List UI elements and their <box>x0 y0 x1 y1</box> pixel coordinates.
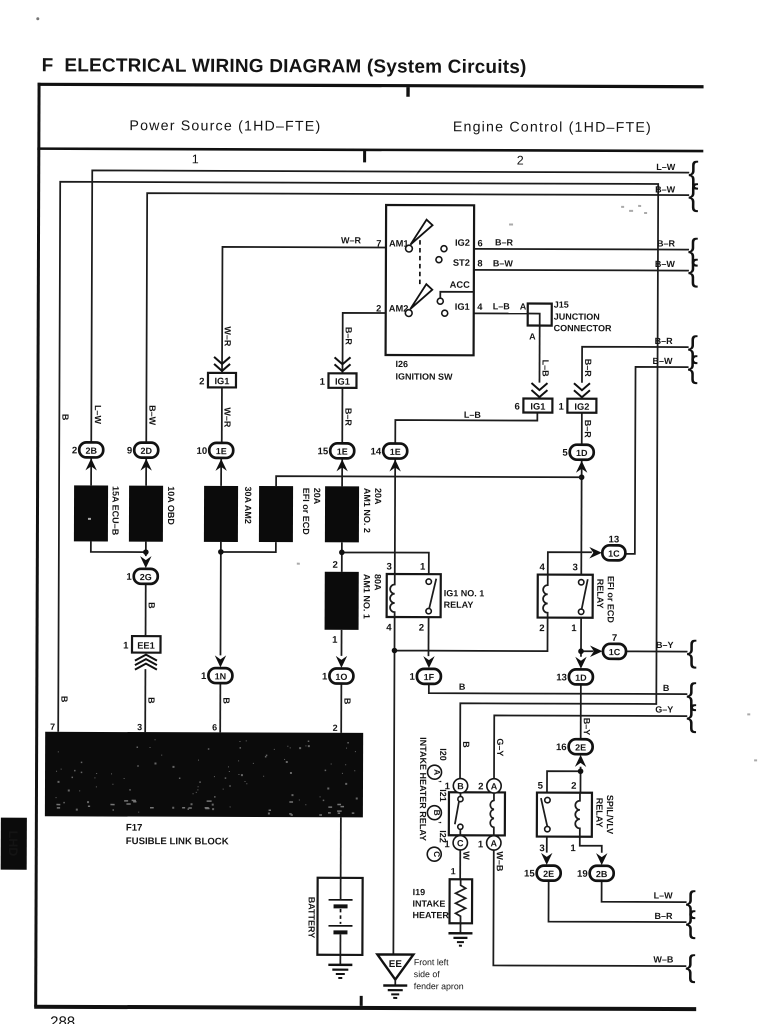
wire SPIL relay pin 3 to 15 2E <box>546 837 548 853</box>
chevron into 1 IG2 <box>574 383 590 397</box>
svg-text:B–Y: B–Y <box>582 718 592 736</box>
svg-text:20A: 20A <box>312 488 322 505</box>
svg-text:IG1: IG1 <box>214 376 229 386</box>
svg-text:LHD: LHD <box>6 831 20 857</box>
svg-text:{: { <box>686 699 696 734</box>
svg-text:Front left: Front left <box>414 957 449 967</box>
svg-text:B: B <box>432 810 442 816</box>
svg-text:C: C <box>432 851 442 857</box>
wire B (2G to EE1) <box>146 584 157 637</box>
svg-text:fender apron: fender apron <box>414 981 464 991</box>
svg-text:EFI or ECD: EFI or ECD <box>606 576 616 624</box>
svg-text:B–W: B–W <box>493 258 514 268</box>
svg-text:A: A <box>491 838 498 848</box>
chevrons below EE1 <box>135 655 157 670</box>
EE ground <box>383 980 407 998</box>
wire IG1 relay pin 4 junction to EFI relay pin 2, and down to EE ground <box>391 617 548 955</box>
relay EFI or ECD coil <box>543 575 548 618</box>
svg-text:ACC: ACC <box>450 280 470 290</box>
svg-text:I20: I20 <box>438 748 448 761</box>
relay IG1 NO.1 switch <box>426 579 436 614</box>
svg-text:I19: I19 <box>413 887 426 897</box>
connector 7 1C <box>590 633 626 659</box>
wire L-B (IG1 row to J15) <box>448 301 528 313</box>
fuse 80A AM1 NO.1 <box>325 560 383 646</box>
terminal box 1 IG2 <box>559 399 597 413</box>
svg-text:2: 2 <box>332 560 337 571</box>
svg-text:2B: 2B <box>596 869 608 879</box>
svg-text:{: { <box>688 178 698 213</box>
svg-text:F ELECTRICAL WIRING DIAGRAM (: F ELECTRICAL WIRING DIAGRAM (System Circ… <box>42 55 527 78</box>
svg-text:IG1 NO. 1: IG1 NO. 1 <box>444 588 485 598</box>
wire 16 2E junction to SPIL/VLV relay pins 5 and 2 <box>547 767 583 793</box>
svg-text:1: 1 <box>322 671 328 682</box>
relay SPIL/VLV <box>537 781 615 855</box>
I19 ground <box>448 933 472 945</box>
connector 15 1E <box>317 443 354 471</box>
svg-text:RELAY: RELAY <box>444 600 474 610</box>
svg-text:1D: 1D <box>576 448 588 458</box>
wire W-B (relay pin A to right edge) <box>493 850 686 966</box>
svg-text:{: { <box>688 253 698 288</box>
svg-text:1C: 1C <box>609 647 621 657</box>
svg-text:AM1 NO. 1: AM1 NO. 1 <box>362 574 372 619</box>
connector 16 2E <box>556 739 593 767</box>
svg-text:B: B <box>221 697 231 704</box>
svg-text:1: 1 <box>332 635 338 646</box>
chevron into 1 IG1 <box>335 357 351 371</box>
svg-text:I22: I22 <box>438 830 448 843</box>
svg-text:1N: 1N <box>215 671 227 681</box>
wire 10 1E to fuse 30A <box>220 458 222 486</box>
svg-text:AM1 NO. 2: AM1 NO. 2 <box>362 488 372 533</box>
svg-text:A: A <box>432 769 442 775</box>
svg-text:B: B <box>457 781 464 791</box>
svg-text:1O: 1O <box>335 672 347 682</box>
svg-text:B–W: B–W <box>147 405 157 426</box>
intake heater relay pin A top <box>487 779 501 793</box>
svg-text:1: 1 <box>320 377 326 388</box>
intake heater relay pin A bottom <box>487 836 501 850</box>
relay SPIL/VLV coil <box>575 793 580 837</box>
ignition switch AM1 lever <box>406 220 433 252</box>
relay IG1 NO.1 coil <box>390 574 395 617</box>
intake heater relay pin C <box>453 836 467 850</box>
wire L-W (19 2B to right edge) <box>602 881 687 902</box>
wire 80A fuse to 1O <box>340 630 342 656</box>
svg-text:B–R: B–R <box>343 408 353 427</box>
I19 intake heater <box>412 879 472 923</box>
svg-text:I26: I26 <box>396 359 409 369</box>
svg-text:CONNECTOR: CONNECTOR <box>554 323 612 333</box>
svg-text:B: B <box>59 696 69 703</box>
svg-text:1C: 1C <box>608 549 620 559</box>
svg-text:A: A <box>520 301 527 311</box>
svg-text:L–W: L–W <box>93 405 103 425</box>
svg-text:10A OBD: 10A OBD <box>166 486 176 525</box>
svg-text:1: 1 <box>570 843 576 854</box>
battery <box>306 878 362 955</box>
svg-text:15A ECU–B: 15A ECU–B <box>110 486 120 536</box>
svg-text:3: 3 <box>539 843 544 854</box>
svg-text:W–R: W–R <box>341 235 362 245</box>
svg-text:L–B: L–B <box>464 410 482 420</box>
svg-text:6: 6 <box>212 722 217 732</box>
svg-text:2E: 2E <box>575 743 586 753</box>
svg-text:B–W: B–W <box>655 259 676 269</box>
svg-text:INTAKE: INTAKE <box>413 899 446 909</box>
svg-text:14: 14 <box>371 446 382 457</box>
svg-text:B–R: B–R <box>583 420 593 439</box>
svg-text:2: 2 <box>376 303 381 313</box>
svg-text:1: 1 <box>410 672 416 683</box>
svg-text:side of: side of <box>414 969 441 979</box>
svg-text:2D: 2D <box>140 446 152 456</box>
wire B-W ST2 row <box>439 258 689 270</box>
wire 15 1E to fuse 20A AM1 <box>341 458 343 486</box>
wire B (1F to right edge) <box>429 682 688 694</box>
svg-text:{: { <box>686 634 696 669</box>
fuse 20A AM1 NO.2 <box>325 486 383 542</box>
wire B (EE1 to fusible link pin 3) <box>145 669 156 732</box>
ignition switch AM2 lever <box>405 284 432 316</box>
wire L-B (6 IG1 box down and left to 14 1E) <box>395 410 537 445</box>
svg-text:EE1: EE1 <box>137 641 155 651</box>
wire B-R (AM2 feed down to 1 IG1 box) <box>343 313 406 374</box>
wire EFI fuse top feed <box>276 476 582 487</box>
svg-text:B–R: B–R <box>657 238 676 248</box>
ignition switch IG2 contact <box>441 246 447 252</box>
wire battery to ground <box>339 955 341 965</box>
svg-text:IG1: IG1 <box>530 402 545 412</box>
svg-text:B: B <box>461 741 471 748</box>
relay IG1 NO.1 <box>386 562 484 634</box>
ground point EE <box>377 954 464 991</box>
svg-text:15: 15 <box>524 869 535 880</box>
wire 2B to fuse 15A <box>90 457 92 485</box>
svg-text:1: 1 <box>559 402 565 413</box>
svg-text:G–Y: G–Y <box>495 738 505 756</box>
svg-text:10: 10 <box>197 446 208 457</box>
ignition switch ACC contact <box>437 292 474 305</box>
svg-text:L–W: L–W <box>654 890 674 900</box>
svg-text:FUSIBLE LINK BLOCK: FUSIBLE LINK BLOCK <box>126 836 229 847</box>
svg-text:1: 1 <box>420 562 426 573</box>
wire B-Y (7 1C to right edge) <box>625 640 687 652</box>
svg-text:W–B: W–B <box>495 851 505 872</box>
svg-text:B–R: B–R <box>344 327 354 346</box>
intake heater relay box <box>444 781 505 850</box>
svg-text:5: 5 <box>538 781 544 792</box>
connector 13 1C <box>589 534 625 560</box>
svg-text:{: { <box>685 949 695 984</box>
svg-text:2: 2 <box>478 781 483 792</box>
ignition switch lever link (dashed) <box>419 240 421 285</box>
ignition switch I26 <box>376 205 484 382</box>
svg-text:2B: 2B <box>85 446 97 456</box>
svg-text:7: 7 <box>376 238 381 248</box>
svg-text:INTAKE HEATER RELAY: INTAKE HEATER RELAY <box>418 737 428 841</box>
terminal box 1 IG1 <box>320 373 357 388</box>
fuse 10A OBD <box>129 486 176 542</box>
wire L-W top (net to 2B) <box>91 160 689 445</box>
wire B-R (15 2E to right edge) <box>548 881 686 923</box>
intake heater relay coil <box>490 793 494 836</box>
ignition switch ST2 contact <box>436 257 442 263</box>
svg-text:L–B: L–B <box>493 301 511 311</box>
svg-text:1E: 1E <box>390 447 401 457</box>
svg-text:16: 16 <box>556 742 567 753</box>
connector 15 2E <box>524 853 561 881</box>
svg-text:B: B <box>459 682 466 692</box>
connector 5 1D <box>562 445 593 473</box>
wire EFI relay pin 1 to junction / 7 1C / 13 1D <box>578 618 593 657</box>
svg-text:13: 13 <box>556 672 567 683</box>
svg-text:1E: 1E <box>216 446 227 456</box>
svg-text:EFI or ECD: EFI or ECD <box>301 488 311 536</box>
chevron into 6 IG1 <box>531 383 547 397</box>
svg-text:1: 1 <box>126 572 132 583</box>
svg-text:1: 1 <box>478 839 484 850</box>
battery ground <box>328 965 352 978</box>
svg-text:4: 4 <box>477 302 483 312</box>
svg-text:B–R: B–R <box>655 336 674 346</box>
svg-text:13: 13 <box>609 534 620 545</box>
wire L-B (J15 down to 6 IG1 box) <box>529 326 551 383</box>
wire B-R (1 IG1 box to 15 1E) <box>342 388 353 444</box>
fusible link block F17 <box>45 722 363 848</box>
connector 1 1F <box>410 656 441 684</box>
svg-text:1: 1 <box>192 152 199 166</box>
wire W-R (AM1 feed down to 2 IG1 box) <box>222 235 406 374</box>
ignition switch IG1 contact <box>442 310 448 316</box>
svg-text:30A AM2: 30A AM2 <box>243 486 253 523</box>
svg-text:B–R: B–R <box>495 237 514 247</box>
svg-text:,: , <box>438 821 448 824</box>
svg-text:C: C <box>457 838 464 848</box>
svg-text:80A: 80A <box>373 574 383 591</box>
svg-text:2E: 2E <box>543 869 554 879</box>
svg-text:3: 3 <box>386 562 391 573</box>
svg-text:5: 5 <box>562 448 568 459</box>
svg-text:Engine Control (1HD–FTE): Engine Control (1HD–FTE) <box>453 119 652 136</box>
svg-text:9: 9 <box>127 446 132 457</box>
svg-text:1: 1 <box>451 866 456 876</box>
svg-text:SPIL/VLV: SPIL/VLV <box>605 795 615 834</box>
wire 5 1D to junction to EFI relay pin 3 <box>578 460 584 575</box>
svg-text:W: W <box>461 851 471 860</box>
wire B-R IG2 row <box>447 237 689 249</box>
frame border <box>34 83 703 1011</box>
svg-text:B: B <box>663 683 670 693</box>
svg-text:IG1: IG1 <box>455 302 470 312</box>
fuse 20A EFI or ECD <box>259 486 322 542</box>
svg-text:2: 2 <box>571 781 576 792</box>
svg-text:1: 1 <box>201 671 207 682</box>
connector 19 2B <box>577 853 614 881</box>
wire B-W (net to 2D) <box>146 183 689 445</box>
wire fuse bottoms to 2G <box>91 541 149 556</box>
svg-text:3: 3 <box>137 722 142 732</box>
fuse 15A ECU-B <box>74 485 121 541</box>
wire B-R right edge to 1 IG2 box <box>582 336 689 383</box>
relay EFI or ECD switch <box>578 579 587 614</box>
svg-text:ST2: ST2 <box>453 258 470 268</box>
svg-text:1F: 1F <box>424 672 435 682</box>
svg-text:IG2: IG2 <box>455 238 470 248</box>
svg-text:B: B <box>147 602 157 609</box>
wire 30A AM2 bottom junction to 1N <box>218 542 276 656</box>
svg-text:15: 15 <box>318 446 329 457</box>
fuse 30A AM2 <box>204 486 253 542</box>
svg-text:3: 3 <box>572 562 577 573</box>
wire B (net left vertical + right loop to intake heater relay) <box>58 182 658 780</box>
svg-text:1: 1 <box>123 641 129 652</box>
svg-text:6: 6 <box>515 401 520 412</box>
wire B (1N to fusible link pin 6) <box>220 683 231 733</box>
wire 14 1E to IG1 relay pin 3 <box>394 459 396 574</box>
svg-text:IGNITION SW: IGNITION SW <box>395 372 453 382</box>
svg-text:RELAY: RELAY <box>595 579 605 609</box>
svg-text:HEATER: HEATER <box>413 910 450 920</box>
svg-text:IG1: IG1 <box>335 377 350 387</box>
svg-text:B: B <box>146 697 156 704</box>
svg-text:1D: 1D <box>575 673 587 683</box>
svg-text:B–R: B–R <box>583 359 593 378</box>
svg-text:IG2: IG2 <box>574 402 589 412</box>
terminal box 6 IG1 <box>515 398 553 412</box>
svg-text:7: 7 <box>612 633 617 644</box>
svg-text:2: 2 <box>419 623 424 634</box>
svg-text:B–W: B–W <box>653 356 674 366</box>
svg-text:2: 2 <box>72 445 77 456</box>
svg-text:F17: F17 <box>126 823 143 834</box>
wire W-R (2 IG1 box to 10 1E) <box>222 387 233 443</box>
svg-text:1E: 1E <box>337 447 348 457</box>
svg-text:J15: J15 <box>554 300 569 310</box>
svg-text:L–B: L–B <box>540 360 550 378</box>
svg-text:Power Source (1HD–FTE): Power Source (1HD–FTE) <box>129 118 321 135</box>
wire I19 to ground <box>459 923 461 933</box>
svg-text:A: A <box>529 332 536 342</box>
wire B (1O to fusible link pin 2) <box>341 683 352 733</box>
wire B-R (1 IG2 box to 5 1D) <box>582 413 593 445</box>
svg-text:2G: 2G <box>140 572 152 582</box>
connector 9 2D <box>127 443 158 471</box>
intake heater relay label I20 A, I21 B, I22 C <box>418 737 448 861</box>
svg-text:,: , <box>438 780 448 783</box>
connector 2 2B <box>72 442 103 470</box>
svg-text:BATTERY: BATTERY <box>306 897 316 939</box>
junction connector J15 <box>528 300 612 334</box>
svg-text:W–R: W–R <box>223 326 233 347</box>
svg-text:RELAY: RELAY <box>594 798 604 828</box>
svg-text:W–R: W–R <box>222 407 232 428</box>
terminal box 2 IG1 <box>199 373 236 388</box>
svg-text:1: 1 <box>571 623 577 634</box>
svg-text:4: 4 <box>386 623 392 634</box>
svg-text:B–R: B–R <box>654 911 673 921</box>
relay EFI or ECD <box>538 562 616 634</box>
connector 1 1N <box>201 655 232 683</box>
wire fusible link pin2 to battery <box>340 817 342 877</box>
connector 13 1D <box>556 657 593 685</box>
connector 1 2G <box>126 556 157 584</box>
svg-text:288: 288 <box>50 1014 75 1024</box>
svg-text:I21: I21 <box>438 789 448 802</box>
wire EFI relay pin 4 to 13 1C <box>548 552 592 575</box>
svg-text:6: 6 <box>477 238 482 248</box>
svg-text:2: 2 <box>517 153 524 167</box>
svg-text:2: 2 <box>199 376 204 387</box>
svg-text:B: B <box>342 698 352 705</box>
svg-text:B: B <box>60 414 70 421</box>
svg-text:{: { <box>687 350 697 385</box>
wire 20A AM1 NO.2 junction to 80A fuse and IG1 relay pin 1 <box>339 542 429 574</box>
wire G-Y (right edge to intake heater relay pin A) <box>494 704 687 780</box>
svg-text:A: A <box>491 781 498 791</box>
intake heater relay switch <box>455 793 463 836</box>
connector 1 1O <box>322 656 353 684</box>
connector 14 1E <box>370 443 407 471</box>
wire IG1 relay pin 2 to 1F <box>427 617 429 656</box>
svg-text:JUNCTION: JUNCTION <box>554 312 600 322</box>
svg-text:{: { <box>686 885 696 920</box>
intake heater relay pin B <box>453 779 467 793</box>
svg-text:2: 2 <box>539 623 544 634</box>
connector 10 1E <box>196 443 233 471</box>
svg-text:4: 4 <box>539 562 545 573</box>
wire W (relay pin C to I19 intake heater) <box>451 850 472 880</box>
wire 2D to fuse 10A <box>145 458 147 486</box>
svg-text:B–W: B–W <box>655 184 676 194</box>
svg-text:L–W: L–W <box>656 162 676 172</box>
terminal box 1 EE1 <box>123 636 160 653</box>
svg-text:EE: EE <box>389 959 403 970</box>
chevron into 2 IG1 <box>214 357 230 371</box>
svg-text:20A: 20A <box>373 488 383 505</box>
svg-text:7: 7 <box>50 722 55 732</box>
wire SPIL relay pin 1 to 19 2B <box>580 837 602 853</box>
wire B-W right edge to 13 1C <box>625 356 689 554</box>
svg-text:8: 8 <box>477 258 482 268</box>
LHD tab <box>1 818 27 870</box>
wire B-Y (13 1D down to 16 2E) <box>581 684 592 740</box>
title <box>36 17 527 78</box>
svg-text:W–B: W–B <box>653 954 674 964</box>
relay SPIL/VLV switch <box>541 797 550 831</box>
svg-text:B–Y: B–Y <box>656 640 674 650</box>
svg-text:19: 19 <box>577 869 588 880</box>
scan noise marks <box>87 203 759 761</box>
svg-text:2: 2 <box>333 723 338 733</box>
svg-text:G–Y: G–Y <box>655 704 673 714</box>
